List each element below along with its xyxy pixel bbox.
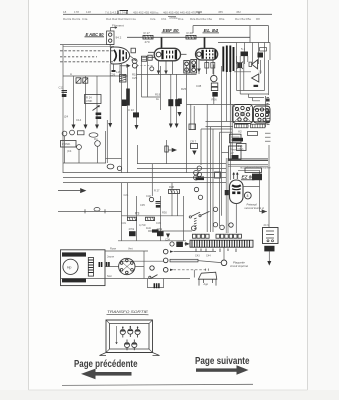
filament arrow <box>111 27 118 31</box>
frame top line EZ80 <box>238 169 260 171</box>
svg-text:Page suivante: Page suivante <box>195 356 250 367</box>
svg-text:Rg: Rg <box>94 137 98 141</box>
wire vertical x177 lower <box>177 194 179 216</box>
V2 cathode circle <box>150 67 154 71</box>
C32 circle <box>149 197 153 201</box>
speaker cluster lower verticals <box>237 56 269 95</box>
wire from bus to prise <box>222 152 229 154</box>
circled terminal 15 <box>163 249 168 254</box>
antenna coil lines <box>60 44 114 46</box>
V2 lead arrows <box>157 71 168 75</box>
amp triangle 1 input rect <box>249 62 252 66</box>
arrow down CR7 <box>192 151 196 156</box>
svg-text:Ra Ra Ra Ra: Ra Ra Ra Ra <box>63 17 81 21</box>
socket label box B <box>251 124 266 128</box>
wire vertical x183 lower <box>183 196 185 241</box>
svg-text:R 17: R 17 <box>144 31 151 35</box>
V4 cathode squares <box>232 192 235 195</box>
resistor P3b <box>146 217 155 220</box>
underline EABC 80 <box>85 36 105 38</box>
svg-text:CR 7: CR 7 <box>190 140 197 144</box>
wire mid cluster <box>234 71 251 73</box>
tube V1 EABC80 envelope D-shape <box>111 47 130 64</box>
coupling capacitor C27 <box>131 48 135 53</box>
bulb bottom 2 <box>132 340 137 351</box>
hatch column x195 <box>194 218 197 229</box>
svg-text:178: 178 <box>74 10 79 14</box>
nav arrow left shaft <box>93 372 132 376</box>
wire vertical x230 <box>230 72 232 104</box>
trimmer capacitor CV1 <box>76 78 81 83</box>
capacitor C30 blob pair <box>96 113 102 116</box>
svg-text:R30: R30 <box>162 211 167 215</box>
svg-text:R25: R25 <box>181 87 187 91</box>
rectifier V4 EZ80 envelope <box>230 180 244 204</box>
svg-text:450 452 455 458 kc: 450 452 455 458 kc <box>133 10 159 14</box>
transfo left foot <box>100 353 107 356</box>
nested corner stub drops <box>249 94 253 101</box>
svg-text:TRANSFO SORTIE: TRANSFO SORTIE <box>107 310 149 314</box>
box group right column 1 <box>230 134 242 143</box>
bottom wire long <box>61 278 191 280</box>
svg-text:P3: P3 <box>135 212 139 216</box>
svg-text:455: 455 <box>218 10 223 14</box>
socket wire cross <box>252 108 270 110</box>
svg-text:C61: C61 <box>161 17 167 21</box>
frame corner vertical x137 <box>137 145 139 164</box>
cadre cluster circle a <box>62 131 67 136</box>
transfo perspective corners <box>106 320 153 353</box>
plate top marks <box>206 269 209 271</box>
resistor box stack 1 <box>211 83 218 86</box>
circled callout b <box>198 195 202 199</box>
wire bottom of P3 box <box>118 240 186 242</box>
resistor R17 body <box>143 35 153 39</box>
wire vertical x160 <box>160 66 162 110</box>
nested corner line left <box>106 158 122 160</box>
wire vertical x110 tube cathode <box>109 64 111 123</box>
arrow terminal 16 <box>170 259 174 261</box>
IF can box right of V2 <box>184 61 190 74</box>
svg-text:Filament: Filament <box>112 24 124 28</box>
capacitor blob P3 right <box>157 231 164 236</box>
cadre label box L <box>61 141 77 148</box>
C34 circle <box>170 242 174 246</box>
socket B pins <box>255 108 268 122</box>
circled terminal 16 <box>163 258 168 263</box>
circled callout c <box>213 207 217 211</box>
V4 anode plates <box>232 185 241 186</box>
svg-text:R 24: R 24 <box>86 96 92 100</box>
magnet bar bottom <box>62 278 86 282</box>
nested frame line 2 <box>206 126 234 128</box>
nav arrow right shaft <box>196 368 237 371</box>
svg-text:Ra1 Ra2 Ra3 Ra4 C1a: Ra1 Ra2 Ra3 Ra4 C1a <box>106 17 136 21</box>
svg-text:C29: C29 <box>132 76 138 80</box>
bulb top 2 <box>128 326 133 337</box>
wire vertical x127 long <box>127 66 129 173</box>
tube V2 EBF80 envelope pill <box>154 48 180 61</box>
underline EBF 80 <box>162 32 180 34</box>
oval component C713 <box>107 164 114 169</box>
transfo inner frame <box>110 324 150 350</box>
circle component <box>117 166 121 170</box>
bus line 2 <box>63 177 227 179</box>
ruler dark tick marks <box>118 11 128 15</box>
circled callout d <box>213 223 217 227</box>
svg-text:C2a: C2a <box>150 17 156 21</box>
under-strip tick marks <box>196 249 236 253</box>
plate supply wire R17 row <box>127 36 250 38</box>
tube V2 right stub <box>181 53 187 55</box>
svg-text:1kΩ: 1kΩ <box>146 226 151 230</box>
tube V2 cathode bar <box>161 50 163 59</box>
transfo outer frame <box>106 320 153 353</box>
circled terminal 7 <box>220 225 225 230</box>
bulb top 3 <box>135 327 140 338</box>
ticks on wire y211 <box>85 209 105 213</box>
component CR7 <box>191 144 198 149</box>
arrow down on feed <box>166 234 170 239</box>
V3 lead arrows <box>197 69 201 73</box>
wire y211 left <box>58 210 122 212</box>
V1 ground arrow right <box>120 65 127 67</box>
bus line 5 upper <box>137 167 227 169</box>
svg-text:Ra C5a R5a: Ra C5a R5a <box>235 17 251 21</box>
capacitor in loop <box>154 283 159 288</box>
bulb top 1 <box>120 327 125 338</box>
blob inside prise box <box>232 155 239 159</box>
svg-text:EBF 80: EBF 80 <box>163 28 180 33</box>
small box mid bottom <box>189 124 196 130</box>
dark bar below fuse box <box>264 246 274 252</box>
svg-text:L'OND.: L'OND. <box>62 142 71 146</box>
right tiny column marks <box>266 96 270 127</box>
ruler bottom row labels <box>63 16 260 21</box>
ruler tick T mark right <box>196 12 202 15</box>
wire verticals right pair <box>230 72 232 180</box>
cadre oval <box>89 133 98 137</box>
arrow into strip <box>185 243 190 246</box>
arrow terminal 15 <box>170 250 174 252</box>
wire vertical x166 with component <box>166 140 168 164</box>
amp triangle 1 <box>252 60 258 69</box>
wire vertical x152 mid <box>151 164 153 196</box>
C28 circle pair upper <box>132 59 137 64</box>
terminal strip top row <box>193 234 242 238</box>
tube socket V5 circle <box>119 258 135 274</box>
svg-text:C14: C14 <box>76 118 82 122</box>
svg-text:(24v): (24v) <box>238 147 244 151</box>
wire vertical x160 lower <box>160 196 162 241</box>
field coil hatched <box>88 258 93 277</box>
svg-text:Hp: Hp <box>67 265 71 269</box>
wire vertical pair x170 <box>170 74 172 124</box>
prise HP box <box>229 146 242 160</box>
svg-text:Page précédente: Page précédente <box>74 359 138 370</box>
ground arrow mid <box>135 125 139 130</box>
capacitor C34 blob <box>176 242 183 247</box>
wires to socket <box>105 251 148 279</box>
ground arrow 3 <box>95 125 99 130</box>
resistor box stack 2 <box>211 87 218 90</box>
capacitor blob P3 left <box>129 231 136 236</box>
wire vertical x127 lower <box>127 183 129 218</box>
svg-text:Vert: Vert <box>128 247 133 251</box>
wire verticals x190 x194 <box>191 104 194 130</box>
svg-text:R6a: R6a <box>219 17 225 21</box>
wire pot wiper <box>93 106 100 111</box>
separator line <box>62 384 253 385</box>
capacitor C11 plates <box>62 91 68 93</box>
speaker HP circle <box>63 259 78 274</box>
svg-text:C43: C43 <box>195 255 200 258</box>
svg-text:Noir: Noir <box>107 274 112 278</box>
svg-text:C33: C33 <box>156 221 161 225</box>
wire terminal 15 <box>174 251 217 253</box>
svg-text:C4a: C4a <box>82 17 88 21</box>
component on x166 <box>165 146 168 152</box>
wire vertical x121 long <box>121 64 123 173</box>
dial dashed line 3 <box>60 61 113 63</box>
socket label box A <box>235 124 249 128</box>
arrow terminal 17 <box>170 269 174 271</box>
HT supply top wire <box>193 26 269 43</box>
capacitor pair 2 <box>107 262 109 267</box>
capacitor blob pair mid <box>168 99 173 106</box>
svg-text:R 27: R 27 <box>154 189 160 193</box>
ruler top row tick labels <box>63 10 241 14</box>
svg-text:128: 128 <box>86 10 91 14</box>
wire terminal 17 corner <box>193 270 195 278</box>
socket A crosslines <box>234 106 251 122</box>
ruler small underline <box>168 16 176 18</box>
resistor vertical hatched x128 <box>126 89 130 106</box>
wire below dark bar <box>268 251 270 261</box>
svg-text:Rose: Rose <box>110 247 117 251</box>
wire vertical x147 <box>147 60 149 97</box>
tube V2 left stubs <box>148 52 154 57</box>
supply dashed wire <box>236 42 270 44</box>
dark cluster bottom left of bundle <box>196 177 205 181</box>
blob filter <box>252 174 262 181</box>
circled winding pair <box>194 170 199 175</box>
svg-text:5,1: 5,1 <box>241 47 246 51</box>
arrow right from x166 <box>168 148 176 151</box>
page left edge line <box>28 0 30 390</box>
wire vertical x172 lower <box>171 183 173 216</box>
supply verticals <box>237 43 271 65</box>
svg-text:raccord tourne d.: raccord tourne d. <box>245 206 265 210</box>
wire vertical x221 <box>221 66 223 122</box>
small boxes under sockets <box>248 132 258 136</box>
circled pin 8 <box>244 192 251 199</box>
wire vertical x97 <box>96 76 98 126</box>
filter coil blob <box>258 53 264 58</box>
wire IF can to tube V1 <box>109 45 111 48</box>
dashed wire left of V2 <box>137 65 154 67</box>
svg-text:470k: 470k <box>157 227 163 231</box>
frame vertical pair x105-107 <box>106 120 108 163</box>
capacitor blob R26 <box>212 92 218 97</box>
wire terminal 17 dashed <box>174 269 209 271</box>
dark dash below triangles <box>254 85 259 87</box>
screen resistor node circle <box>211 75 217 81</box>
fuse box inner marks <box>266 231 274 238</box>
switch diagonal mid <box>191 211 210 216</box>
V3 base boxes <box>205 63 209 69</box>
svg-text:HP: HP <box>230 151 234 155</box>
svg-text:R1a: R1a <box>178 17 184 21</box>
capacitor pair 1 <box>99 262 101 267</box>
svg-text:R26: R26 <box>212 98 218 102</box>
oval on wire y211 <box>94 208 100 212</box>
svg-text:E ABC 80: E ABC 80 <box>86 32 105 37</box>
circled callout e <box>229 223 233 227</box>
V4 top lead arrows <box>233 173 235 180</box>
svg-text:C31: C31 <box>121 221 126 225</box>
wire R19 <box>142 96 161 98</box>
nested corner wires right <box>237 91 269 101</box>
svg-text:C38: C38 <box>196 84 202 88</box>
tube V2 base leads <box>158 61 160 74</box>
wire vertical x73 <box>73 76 75 126</box>
svg-text:460 455 450 445 455 470: 460 455 450 445 455 470 <box>163 10 196 14</box>
socket V5 pins <box>120 259 133 274</box>
nav arrow left head <box>81 369 96 380</box>
cadre cluster box R13 <box>78 131 85 135</box>
dial dashed line 2 <box>60 56 97 58</box>
capacitor blob C22 <box>133 112 139 117</box>
speaker assembly frame <box>61 250 106 286</box>
coil box R24 <box>85 95 102 104</box>
svg-text:18: 18 <box>63 10 67 14</box>
ground arrow 1 <box>72 125 76 130</box>
HT output arrow <box>260 210 268 213</box>
capacitor C26 under V1 <box>112 70 116 72</box>
arrow down right <box>267 261 271 266</box>
wire into terminal 16 <box>120 260 163 262</box>
transfo right foot <box>153 353 160 356</box>
wire left rail <box>62 45 64 173</box>
trimmer capacitor CV2 <box>83 78 88 83</box>
ground arrow 4 <box>108 123 112 128</box>
circled terminal 17 <box>163 268 168 273</box>
svg-text:R 20: R 20 <box>187 31 194 35</box>
label C2A box <box>260 48 267 51</box>
output transformer lamination bars <box>223 46 233 73</box>
ruler main line <box>63 13 272 15</box>
svg-text:452: 452 <box>236 10 241 14</box>
chassis plate parallelogram <box>198 272 216 279</box>
svg-text:C 22: C 22 <box>128 108 134 112</box>
nested frame line 1 <box>206 121 270 123</box>
circled callout a <box>194 187 198 191</box>
tube V1 base leads <box>113 64 115 70</box>
small box x216 <box>215 172 221 178</box>
left margin strip <box>0 0 28 400</box>
resistor blob x124 <box>122 100 127 107</box>
svg-text:C35: C35 <box>140 203 145 207</box>
V4 bottom lead <box>235 204 237 234</box>
svg-text:C28: C28 <box>131 58 137 62</box>
circled terminal cm <box>150 266 154 270</box>
amp triangle 2 <box>252 74 259 82</box>
tube V2 EBF80 anode lead <box>161 37 163 48</box>
page right edge line <box>307 0 309 390</box>
wire feed y231 <box>148 230 192 232</box>
cadre drop wires <box>65 131 106 163</box>
circled terminal pair left <box>197 166 201 170</box>
capacitor C37 on x180 <box>178 99 182 105</box>
small blob under C32 <box>156 205 161 208</box>
bus line 1 <box>63 172 227 174</box>
capacitor C11 blob <box>62 94 67 97</box>
svg-text:(24: (24 <box>64 115 68 119</box>
cadre circle c <box>77 145 82 150</box>
busbar terminal 16 <box>170 259 198 262</box>
bus feed arrow <box>58 189 86 193</box>
dark label bar <box>233 138 244 142</box>
tube V2 inner circle <box>156 52 161 57</box>
resistor box mid2 <box>148 55 152 60</box>
svg-text:R8: R8 <box>256 17 260 21</box>
svg-text:C11: C11 <box>59 86 64 90</box>
circled terminal 6 <box>192 226 197 231</box>
tube V3 inner circle <box>197 52 201 56</box>
terminal comb strip <box>190 240 253 247</box>
svg-text:C32: C32 <box>146 194 151 198</box>
choke coil L blob <box>241 52 249 57</box>
wire vertical x136 <box>136 66 138 126</box>
light line pair right <box>228 165 268 167</box>
wire bundle verticals <box>201 104 222 232</box>
switch contact bottom <box>149 276 151 278</box>
cadre circle d <box>95 141 101 147</box>
tube V3 base leads <box>198 60 200 74</box>
svg-text:R2a: R2a <box>190 17 196 21</box>
svg-text:Ago: Ago <box>204 282 209 286</box>
page bottom edge line <box>29 389 308 391</box>
output transformer top wire <box>218 42 236 44</box>
IF can box 2 right of V2 <box>191 60 197 74</box>
svg-text:470k: 470k <box>129 227 135 231</box>
nav arrow right head <box>237 365 249 374</box>
wire terminal 16 <box>174 259 199 261</box>
wire horizontal y104 <box>187 104 271 106</box>
tube V3 grid dashes <box>206 50 212 59</box>
tube V3 cathode bar <box>201 50 203 59</box>
coupling capacitor C28 <box>132 63 137 68</box>
bulb bottom 1 <box>124 340 129 351</box>
svg-text:24 V: 24 V <box>264 223 270 227</box>
svg-text:EL 84: EL 84 <box>204 28 219 33</box>
tube V1 electrodes <box>119 50 121 62</box>
tube V1 coupling diagonal <box>130 56 137 61</box>
svg-text:V2: V2 <box>238 130 242 134</box>
arrow down x179 <box>177 112 181 117</box>
bulb arrows top <box>122 326 138 328</box>
magnet bar top <box>62 252 86 256</box>
dark blob left of V4 <box>225 190 229 195</box>
bus line 4 upper <box>137 163 227 165</box>
wire vertical x269 <box>268 145 270 227</box>
ground arrow pair <box>169 124 173 129</box>
right short wires <box>265 133 271 141</box>
socket A pins <box>235 106 249 121</box>
wire grid bus <box>63 75 128 77</box>
HT wire right of V4 <box>243 170 260 211</box>
